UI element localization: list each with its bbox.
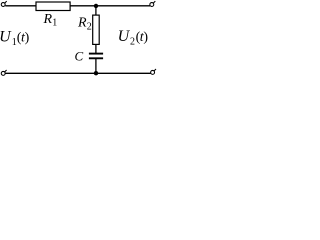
- svg-text:R: R: [43, 12, 53, 27]
- wire top-left segment: [5, 5, 36, 7]
- label R2: [77, 16, 92, 33]
- svg-text:C: C: [75, 48, 84, 63]
- wire bottom rail: [5, 72, 150, 74]
- svg-text:1: 1: [52, 18, 57, 29]
- label U1: [0, 28, 30, 48]
- capacitor C: [89, 54, 103, 59]
- svg-text:U: U: [0, 28, 12, 45]
- wire R2-C stub: [95, 44, 97, 53]
- svg-text:U: U: [118, 28, 131, 45]
- resistor R1: [36, 2, 70, 11]
- node junction bottom: [94, 71, 98, 75]
- svg-text:): ): [25, 30, 30, 45]
- wire R2 top stub: [95, 6, 97, 15]
- svg-text:): ): [143, 30, 148, 45]
- wire top-right segment: [70, 5, 150, 7]
- terminal bottom-left: [1, 70, 6, 75]
- wire C bottom stub: [95, 59, 97, 73]
- label R1: [43, 12, 58, 29]
- resistor R2: [93, 15, 100, 44]
- terminal top-left: [1, 1, 6, 6]
- terminal top-right: [150, 1, 155, 6]
- svg-text:2: 2: [87, 22, 92, 33]
- svg-text:R: R: [77, 16, 87, 31]
- label U2: [118, 28, 149, 47]
- svg-text:2: 2: [130, 37, 135, 48]
- node junction top: [94, 4, 98, 8]
- terminal bottom-right: [151, 69, 156, 74]
